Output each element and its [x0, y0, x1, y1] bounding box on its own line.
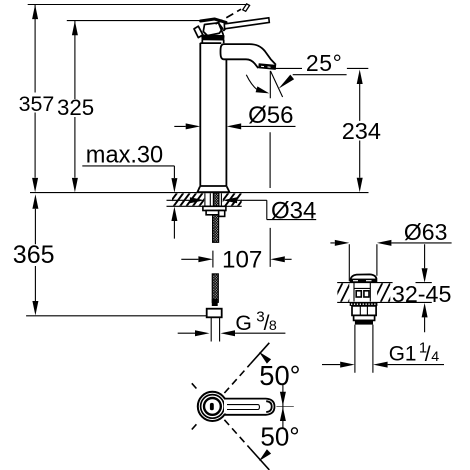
svg-text:Ø63: Ø63	[404, 219, 447, 245]
svg-text:325: 325	[57, 95, 94, 120]
svg-text:max.30: max.30	[86, 143, 163, 169]
svg-text:50°: 50°	[259, 360, 300, 391]
svg-text:8: 8	[269, 318, 277, 334]
svg-text:/: /	[425, 343, 431, 366]
svg-text:25°: 25°	[306, 50, 343, 76]
svg-text:G: G	[235, 312, 251, 335]
svg-text:Ø34: Ø34	[271, 198, 316, 225]
svg-text:107: 107	[222, 246, 262, 273]
svg-text:Ø56: Ø56	[248, 102, 293, 129]
svg-text:365: 365	[13, 241, 55, 269]
svg-text:4: 4	[431, 349, 439, 365]
svg-text:32-45: 32-45	[392, 281, 452, 307]
svg-text:357: 357	[19, 92, 55, 116]
svg-text:234: 234	[342, 118, 381, 144]
svg-text:G1: G1	[389, 342, 417, 365]
svg-text:50°: 50°	[260, 422, 299, 452]
